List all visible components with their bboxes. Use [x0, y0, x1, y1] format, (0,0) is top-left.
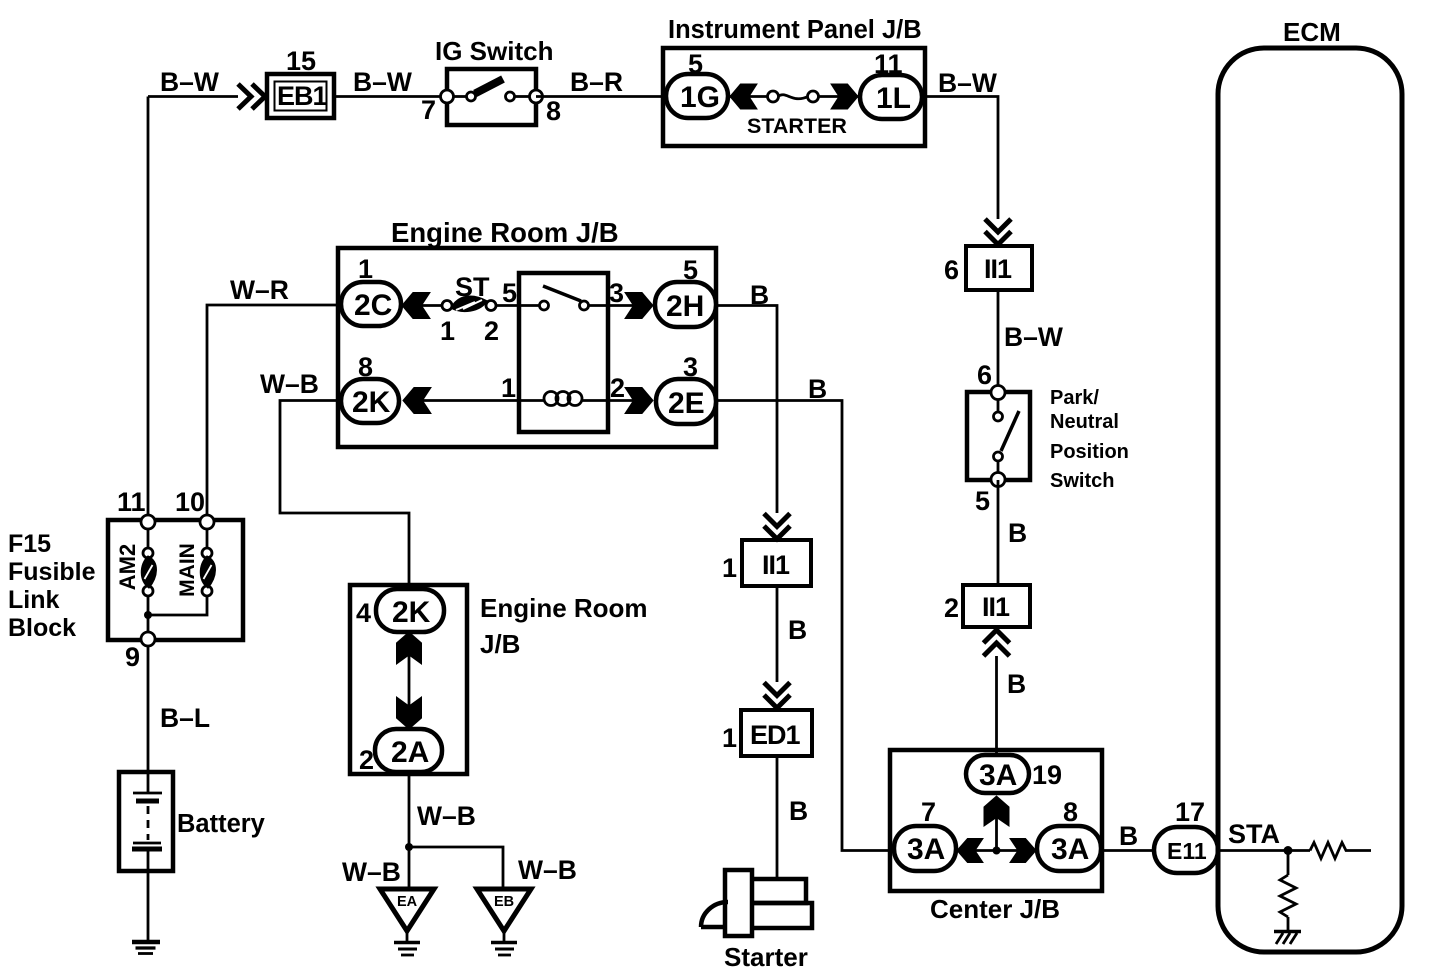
resistor vertical	[1287, 851, 1290, 876]
svg-text:W–B: W–B	[518, 855, 577, 885]
junction W-B	[405, 843, 413, 851]
svg-text:EB: EB	[494, 894, 514, 910]
wire B-W from 1L	[925, 97, 998, 220]
svg-text:EB1: EB1	[277, 81, 328, 111]
relay coil	[519, 399, 545, 402]
Center J/B	[890, 750, 1102, 924]
svg-text:3A: 3A	[907, 833, 945, 866]
F15 Fusible Link Block	[108, 487, 243, 672]
svg-text:1: 1	[440, 316, 455, 346]
connector II1 pin1	[722, 540, 811, 586]
svg-text:J/B: J/B	[480, 629, 520, 659]
node chevron up below II1	[984, 630, 1010, 656]
connector 1L	[860, 75, 922, 119]
node chevron into EB1	[238, 84, 265, 109]
connector II1 pin 6	[944, 246, 1032, 290]
Engine Room J/B main box	[338, 217, 716, 447]
svg-text:2: 2	[610, 373, 625, 403]
svg-text:5: 5	[975, 486, 990, 516]
relay box	[519, 273, 608, 432]
svg-text:2: 2	[484, 316, 499, 346]
wire W-R	[207, 305, 341, 522]
wire B to starter	[776, 756, 779, 879]
connector 3A pin19	[966, 755, 1029, 793]
arrow into 2E	[608, 399, 634, 402]
Engine Room J/B small box	[350, 585, 467, 775]
svg-text:B: B	[789, 796, 808, 826]
ground battery	[132, 942, 160, 954]
svg-text:Engine Room: Engine Room	[480, 593, 648, 623]
ECM	[1218, 17, 1402, 952]
svg-text:9: 9	[125, 642, 140, 672]
svg-text:B–L: B–L	[160, 703, 210, 733]
svg-text:5: 5	[502, 278, 517, 308]
arrow into 2H	[608, 304, 634, 307]
svg-text:17: 17	[1175, 797, 1205, 827]
svg-text:Battery: Battery	[177, 810, 266, 838]
wire B-L to battery	[147, 646, 150, 772]
svg-text:E11: E11	[1167, 838, 1207, 864]
svg-text:2C: 2C	[354, 289, 392, 322]
svg-text:II1: II1	[982, 592, 1010, 622]
svg-text:11: 11	[117, 487, 146, 517]
svg-text:STA: STA	[1228, 819, 1280, 849]
connector 1G	[666, 74, 728, 118]
connector E11	[1154, 797, 1218, 873]
arrow into 2K	[403, 388, 431, 414]
svg-text:10: 10	[175, 487, 205, 517]
wire B-R	[536, 95, 663, 98]
node chevron into II1 pin1	[764, 514, 790, 540]
svg-text:2: 2	[944, 593, 959, 623]
wire B-W to IG switch	[334, 95, 447, 98]
relay switch	[519, 304, 539, 307]
label F15 block	[8, 530, 96, 642]
svg-text:W–B: W–B	[260, 369, 319, 399]
wire B from 2E to Center J/B	[716, 401, 890, 851]
svg-text:1L: 1L	[876, 82, 911, 115]
ground EB	[477, 889, 531, 955]
svg-text:II1: II1	[762, 550, 790, 580]
svg-text:15: 15	[286, 46, 316, 76]
ground inside ECM	[1274, 930, 1301, 934]
svg-text:Link: Link	[8, 586, 59, 614]
svg-text:2: 2	[359, 745, 374, 775]
wire B to ED1	[776, 586, 779, 682]
svg-text:B: B	[1119, 821, 1138, 851]
svg-text:W–B: W–B	[417, 801, 476, 831]
svg-text:Instrument Panel J/B: Instrument Panel J/B	[668, 16, 922, 44]
svg-text:1: 1	[501, 373, 516, 403]
svg-text:3A: 3A	[1051, 833, 1089, 866]
svg-text:8: 8	[546, 96, 561, 126]
Park/Neutral Position Switch	[967, 360, 1129, 516]
svg-text:B–W: B–W	[938, 68, 997, 98]
svg-text:ECM: ECM	[1283, 17, 1341, 47]
svg-text:B–W: B–W	[353, 67, 412, 97]
svg-text:F15: F15	[8, 530, 51, 558]
svg-text:B–W: B–W	[160, 67, 219, 97]
wire battery to ground	[147, 871, 150, 941]
svg-text:2E: 2E	[668, 387, 705, 420]
svg-text:Park/: Park/	[1050, 387, 1099, 409]
svg-text:AM2: AM2	[115, 544, 140, 590]
svg-text:Starter: Starter	[724, 942, 808, 972]
node chevron into ED1	[764, 683, 790, 709]
svg-text:Neutral: Neutral	[1050, 411, 1119, 433]
arrow into 2C	[402, 293, 430, 319]
svg-text:STARTER: STARTER	[747, 114, 847, 138]
svg-text:ED1: ED1	[750, 720, 801, 750]
svg-text:B: B	[750, 280, 769, 310]
svg-text:B–W: B–W	[1004, 322, 1063, 352]
svg-text:W–R: W–R	[230, 275, 289, 305]
connector EB1	[267, 46, 334, 118]
svg-text:4: 4	[356, 598, 371, 628]
resistor horizontal	[1310, 843, 1371, 859]
svg-text:B: B	[788, 615, 807, 645]
wire B from 2H down to II1	[716, 306, 777, 514]
svg-text:1: 1	[722, 553, 737, 583]
svg-text:Switch: Switch	[1050, 470, 1114, 492]
connector II1 pin 2	[944, 585, 1030, 627]
left vertical wire B-W	[147, 97, 150, 523]
svg-text:IG Switch: IG Switch	[435, 36, 553, 66]
wire B-W top left horizontal	[148, 95, 238, 98]
svg-text:II1: II1	[984, 254, 1012, 284]
wire STA internal	[1218, 849, 1310, 852]
svg-text:7: 7	[421, 95, 436, 125]
svg-text:2A: 2A	[391, 736, 429, 769]
junction and arrows	[956, 849, 1037, 852]
svg-text:2H: 2H	[666, 290, 704, 323]
wire B-W to PNP	[997, 290, 1000, 392]
svg-text:7: 7	[921, 797, 936, 827]
svg-text:B–R: B–R	[570, 67, 623, 97]
svg-text:B: B	[1008, 518, 1027, 548]
wire B to Center J/B	[995, 656, 998, 756]
wire W-B from 2A	[408, 772, 411, 889]
svg-text:W–B: W–B	[342, 857, 401, 887]
ground EA	[380, 889, 434, 955]
svg-text:Fusible: Fusible	[8, 558, 96, 586]
svg-text:2K: 2K	[352, 386, 391, 419]
Instrument Panel J/B	[663, 16, 925, 146]
svg-text:1G: 1G	[680, 81, 720, 114]
svg-text:3: 3	[609, 278, 624, 308]
wire W-B from 2K	[280, 401, 409, 586]
IG Switch	[421, 36, 561, 126]
svg-text:B: B	[808, 374, 827, 404]
wire B to E11	[1102, 849, 1154, 852]
svg-text:1: 1	[358, 254, 373, 284]
double arrow	[408, 632, 411, 729]
connector ED1	[722, 710, 812, 756]
starter motor	[701, 870, 812, 936]
fuse STARTER	[729, 95, 860, 98]
svg-text:1: 1	[722, 723, 737, 753]
wire to EB ground	[409, 847, 503, 889]
svg-text:Block: Block	[8, 614, 76, 642]
svg-text:6: 6	[977, 360, 992, 390]
svg-text:B: B	[1007, 669, 1026, 699]
fuse MAIN	[206, 529, 209, 548]
battery	[119, 772, 266, 871]
svg-text:Engine Room J/B: Engine Room J/B	[391, 217, 619, 248]
svg-text:Position: Position	[1050, 441, 1129, 463]
svg-text:2K: 2K	[392, 596, 431, 629]
svg-text:3A: 3A	[979, 759, 1017, 792]
svg-text:EA: EA	[397, 894, 418, 910]
fuse AM2	[147, 529, 150, 548]
svg-text:6: 6	[944, 255, 959, 285]
svg-text:19: 19	[1032, 760, 1062, 790]
wire B to II1 pin2	[997, 480, 1000, 585]
node chevron into II1 pin6	[985, 219, 1011, 245]
svg-text:MAIN: MAIN	[176, 543, 199, 597]
svg-text:8: 8	[1063, 797, 1078, 827]
svg-text:Center J/B: Center J/B	[930, 894, 1060, 924]
